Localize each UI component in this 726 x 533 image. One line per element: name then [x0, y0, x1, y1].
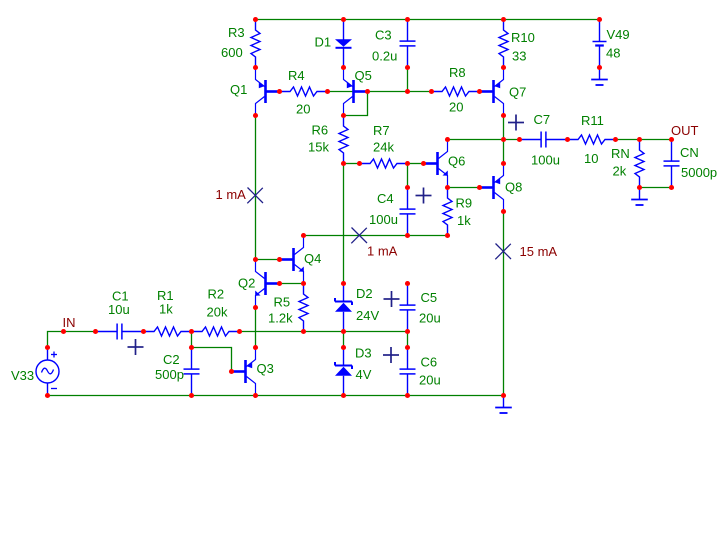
value 15k of R6 — [308, 139, 329, 154]
svg-text:15 mA: 15 mA — [520, 244, 558, 259]
capacitor C4 — [400, 188, 416, 236]
junction Q5 collector / R6 top — [341, 113, 346, 118]
label Q3 — [257, 361, 274, 376]
label Q2 — [238, 275, 255, 290]
svg-text:48: 48 — [606, 45, 620, 60]
svg-text:C5: C5 — [421, 290, 438, 305]
svg-text:Q3: Q3 — [257, 361, 274, 376]
transistor Q1 — [256, 68, 280, 116]
wire R5 bottom to D2 bottom — [304, 331, 344, 333]
junction D1 top — [341, 17, 346, 22]
capacitor C1 — [96, 324, 144, 340]
label V33 — [11, 368, 34, 383]
label R11 — [581, 113, 604, 128]
junction CN top / OUT — [669, 137, 674, 142]
plus mark of C7 — [508, 115, 524, 131]
wire Q1 collector column — [255, 116, 257, 260]
junction Q7 collector — [501, 113, 506, 118]
transistor Q7 — [480, 68, 504, 116]
svg-text:R7: R7 — [373, 123, 390, 138]
svg-text:100u: 100u — [369, 212, 398, 227]
junction V49 top — [597, 17, 602, 22]
diode D1 — [335, 20, 352, 68]
current probe X 1mA left — [247, 188, 263, 204]
svg-text:C3: C3 — [375, 27, 392, 42]
junction Q3 emitter — [253, 345, 258, 350]
wire R7 right to Q6 base — [408, 163, 424, 165]
svg-text:20: 20 — [296, 101, 310, 116]
resistor R9 — [443, 188, 452, 236]
value 24V of D2 — [356, 308, 379, 323]
junction R2 right — [237, 329, 242, 334]
label R1 — [157, 288, 174, 303]
svg-text:OUT: OUT — [671, 123, 699, 138]
junction R11 right — [613, 137, 618, 142]
junction R3 bottom / Q1 emitter — [253, 65, 258, 70]
junction RN bottom / ground — [637, 185, 642, 190]
junction R5 bottom — [301, 329, 306, 334]
value 0.2u of C3 — [372, 48, 397, 63]
plus mark of C4 — [416, 188, 432, 204]
svg-text:RN: RN — [611, 146, 630, 161]
junction C2 top — [189, 345, 194, 350]
value 20u of C5 — [419, 310, 441, 325]
svg-text:R3: R3 — [228, 25, 245, 40]
current label 1 mA middle — [367, 243, 398, 258]
svg-text:D3: D3 — [355, 345, 372, 360]
current probe X 1mA middle — [351, 228, 367, 244]
junction V33 plus — [45, 345, 50, 350]
resistor R7 — [360, 159, 408, 168]
resistor R1 — [144, 327, 192, 336]
label Q4 — [304, 251, 321, 266]
junction bottom rail / ground — [501, 393, 506, 398]
svg-text:10u: 10u — [108, 302, 130, 317]
value 20 of R8 — [449, 99, 463, 114]
label D3 — [355, 345, 372, 360]
svg-text:C6: C6 — [421, 354, 438, 369]
resistor RN — [635, 140, 644, 188]
value 100u of C7 — [531, 152, 560, 167]
junction V49 bottom / ground — [597, 65, 602, 70]
wire output node row — [448, 139, 520, 141]
label C1 — [112, 288, 129, 303]
label R5 — [274, 294, 291, 309]
wire C3 bottom to base row — [407, 68, 409, 92]
value 20u of C6 — [419, 372, 441, 387]
junction R8 left — [429, 89, 434, 94]
junction D3 top — [341, 345, 346, 350]
resistor R3 — [251, 20, 260, 68]
capacitor CN — [664, 140, 680, 188]
svg-text:100u: 100u — [531, 152, 560, 167]
wire D2 to D3 — [343, 332, 345, 348]
junction Q4 collector — [301, 233, 306, 238]
junction C3 top — [405, 17, 410, 22]
label V49 — [607, 27, 630, 42]
label R8 — [449, 65, 466, 80]
junction R9 bottom — [445, 233, 450, 238]
junction R7 right — [405, 161, 410, 166]
label Q1 — [230, 82, 247, 97]
svg-text:4V: 4V — [356, 367, 372, 382]
label Q7 — [509, 84, 526, 99]
resistor R6 — [339, 116, 348, 164]
capacitor C2 — [184, 348, 200, 396]
wire Q2 base to R5 top node — [280, 283, 304, 285]
svg-text:24V: 24V — [356, 308, 379, 323]
ground at V49 — [591, 68, 608, 86]
junction Q2 collector / Q4 base wire — [253, 257, 258, 262]
svg-text:C2: C2 — [163, 352, 180, 367]
zener diode D3 — [335, 348, 352, 396]
junction D2 top — [341, 281, 346, 286]
junction D1 bottom / Q5 emitter — [341, 65, 346, 70]
label D1 — [315, 34, 332, 49]
transistor Q6 — [424, 140, 448, 188]
svg-text:V33: V33 — [11, 368, 34, 383]
svg-text:C4: C4 — [377, 191, 394, 206]
resistor R4 — [280, 87, 328, 96]
wire R2 to R5 bottom — [240, 331, 304, 333]
value 1k of R1 — [159, 301, 173, 316]
junction R4 right — [325, 89, 330, 94]
junction R10 bottom / Q7 emitter — [501, 65, 506, 70]
junction D3 bottom — [341, 393, 346, 398]
label C3 — [375, 27, 392, 42]
junction Q4 base — [277, 257, 282, 262]
wire R6 bottom to R7 left — [344, 163, 360, 165]
value 24k of R7 — [373, 139, 394, 154]
junction C1 left — [93, 329, 98, 334]
label Q5 — [355, 68, 372, 83]
svg-text:1k: 1k — [159, 301, 173, 316]
junction C1 right / R1 left — [141, 329, 146, 334]
svg-text:Q6: Q6 — [448, 153, 465, 168]
junction C4 top — [405, 185, 410, 190]
svg-text:R9: R9 — [456, 195, 473, 210]
label C2 — [163, 352, 180, 367]
svg-text:Q4: Q4 — [304, 251, 321, 266]
junction Q1 base / R4 left — [277, 89, 282, 94]
capacitor C6 — [400, 348, 416, 396]
svg-text:20u: 20u — [419, 372, 441, 387]
node IN — [61, 329, 66, 334]
junction Q6 collector / output row — [445, 137, 450, 142]
value 20 of R4 — [296, 101, 310, 116]
junction Q8 base — [477, 185, 482, 190]
junction Q8 emitter — [501, 161, 506, 166]
junction Q2 emitter — [253, 305, 258, 310]
current label 1 mA left — [216, 187, 247, 202]
svg-text:R11: R11 — [581, 113, 604, 128]
svg-text:20: 20 — [449, 99, 463, 114]
value 10 of R11 — [584, 151, 598, 166]
svg-text:24k: 24k — [373, 139, 394, 154]
label D2 — [356, 286, 373, 301]
svg-text:IN: IN — [63, 315, 76, 330]
svg-text:Q7: Q7 — [509, 84, 526, 99]
plus mark of C6 — [383, 347, 399, 363]
svg-text:20u: 20u — [419, 310, 441, 325]
junction C7 left — [517, 137, 522, 142]
label R10 — [511, 30, 535, 45]
svg-text:D1: D1 — [315, 34, 332, 49]
svg-text:5000p: 5000p — [681, 165, 717, 180]
resistor R10 — [499, 20, 508, 68]
junction R3 top — [253, 17, 258, 22]
junction Q1 collector — [253, 113, 258, 118]
svg-text:0.2u: 0.2u — [372, 48, 397, 63]
current label 15 mA — [520, 244, 558, 259]
label C4 — [377, 191, 394, 206]
value 48 of V49 — [606, 45, 620, 60]
svg-text:1.2k: 1.2k — [268, 310, 293, 325]
svg-text:500p: 500p — [155, 367, 184, 382]
capacitor C3 — [400, 20, 416, 68]
value 10u of C1 — [108, 302, 130, 317]
transistor Q4 — [280, 236, 304, 284]
transistor Q3 — [232, 348, 256, 396]
junction V33 minus — [45, 393, 50, 398]
plus mark of C1 — [128, 339, 144, 355]
value 2k of RN — [613, 163, 627, 178]
wire D2 bottom to C5 bottom — [344, 331, 408, 333]
label RN — [611, 146, 630, 161]
svg-text:20k: 20k — [207, 304, 228, 319]
label R4 — [288, 68, 305, 83]
junction C7 right — [565, 137, 570, 142]
wire C2 top to Q3 base — [192, 348, 232, 372]
value 1k of R9 — [457, 213, 471, 228]
label R9 — [456, 195, 473, 210]
svg-text:CN: CN — [680, 145, 699, 160]
wire Q2 collector to Q4 base — [256, 259, 280, 261]
label R2 — [208, 286, 225, 301]
svg-text:33: 33 — [512, 48, 526, 63]
capacitor C5 — [400, 284, 416, 332]
junction CN bottom — [669, 185, 674, 190]
junction C6 top — [405, 345, 410, 350]
junction C3 bottom — [405, 65, 410, 70]
resistor R2 — [192, 327, 240, 336]
wire Q7 collector to output row — [503, 116, 505, 140]
label CN — [680, 145, 699, 160]
label Q8 — [505, 179, 522, 194]
svg-text:C7: C7 — [534, 112, 551, 127]
resistor R5 — [299, 284, 308, 332]
svg-text:1 mA: 1 mA — [367, 243, 398, 258]
svg-text:V49: V49 — [607, 27, 630, 42]
value 5000p of CN — [681, 165, 717, 180]
transistor Q5 — [344, 68, 368, 116]
capacitor C7 — [520, 132, 568, 148]
junction R6 bottom — [341, 161, 346, 166]
label C6 — [421, 354, 438, 369]
junction RN top — [637, 137, 642, 142]
wire top supply rail — [256, 19, 600, 21]
junction R1-R2 / C2 branch — [189, 329, 194, 334]
value 500p of C2 — [155, 367, 184, 382]
svg-text:R5: R5 — [274, 294, 291, 309]
value 20k of R2 — [207, 304, 228, 319]
junction D2 bottom — [341, 329, 346, 334]
wire R1-R2 junction down to C2 — [191, 332, 193, 348]
svg-text:2k: 2k — [613, 163, 627, 178]
transistor Q8 — [480, 164, 504, 212]
wire C5 to C6 — [407, 332, 409, 348]
svg-text:Q8: Q8 — [505, 179, 522, 194]
wire R6 column down to D2 — [343, 164, 345, 284]
ground at RN — [631, 188, 648, 206]
battery V49 — [593, 20, 607, 68]
resistor R8 — [432, 87, 480, 96]
svg-text:Q1: Q1 — [230, 82, 247, 97]
junction Q3 base — [229, 369, 234, 374]
junction C6 bottom — [405, 393, 410, 398]
wire node row Q4 collector to R9 bottom — [304, 235, 448, 237]
label R7 — [373, 123, 390, 138]
junction Q6 emitter / R9 top — [445, 185, 450, 190]
junction R8 right / Q7 base — [477, 89, 482, 94]
label Q6 — [448, 153, 465, 168]
svg-text:1k: 1k — [457, 213, 471, 228]
svg-text:Q5: Q5 — [355, 68, 372, 83]
transistor Q2 — [255, 260, 279, 308]
svg-text:Q2: Q2 — [238, 275, 255, 290]
label C7 — [534, 112, 551, 127]
svg-text:R6: R6 — [312, 122, 329, 137]
svg-text:R8: R8 — [449, 65, 466, 80]
net label OUT — [671, 123, 699, 138]
value 4V of D3 — [356, 367, 372, 382]
wire RN bottom to CN bottom — [640, 187, 672, 189]
svg-text:1 mA: 1 mA — [216, 187, 247, 202]
wire R7 down to C4 top — [407, 164, 409, 188]
junction C5 bottom — [405, 329, 410, 334]
wire Q8 collector to bottom rail — [503, 212, 505, 396]
svg-text:R10: R10 — [511, 30, 535, 45]
value 1.2k of R5 — [268, 310, 293, 325]
junction Q2 base — [277, 281, 282, 286]
junction Q3 collector — [253, 393, 258, 398]
svg-text:15k: 15k — [308, 139, 329, 154]
wire Q2 emitter to Q3 emitter column — [255, 308, 257, 348]
junction Q5 base — [365, 89, 370, 94]
value 33 of R10 — [512, 48, 526, 63]
junction Q6 base — [421, 161, 426, 166]
junction C4 bottom — [405, 233, 410, 238]
ground at bottom rail — [495, 396, 512, 414]
value 100u of C4 — [369, 212, 398, 227]
svg-text:10: 10 — [584, 151, 598, 166]
label C5 — [421, 290, 438, 305]
wire R11 to OUT node — [616, 139, 672, 141]
junction C5 top — [405, 281, 410, 286]
zener diode D2 — [335, 284, 352, 332]
junction C2 bottom — [189, 393, 194, 398]
svg-text:R4: R4 — [288, 68, 305, 83]
wire bottom ground rail — [48, 395, 504, 397]
junction R10 top — [501, 17, 506, 22]
junction C3-base row — [405, 89, 410, 94]
svg-text:600: 600 — [221, 45, 243, 60]
source V33 — [36, 348, 59, 396]
junction Q8 collector — [501, 209, 506, 214]
wire Q6 emitter to Q8 base — [448, 187, 480, 189]
junction Q4 emitter / R5 top — [301, 281, 306, 286]
plus mark of C5 — [384, 291, 400, 307]
resistor R11 — [568, 135, 616, 144]
current probe X 15mA — [495, 244, 511, 260]
label R6 — [312, 122, 329, 137]
value 600 of R3 — [221, 45, 243, 60]
wire Q5 base loop — [344, 92, 368, 116]
wire output row to Q8 emitter — [503, 140, 505, 164]
svg-text:D2: D2 — [356, 286, 373, 301]
wire base row Q5 to R8 — [328, 91, 432, 93]
svg-text:R2: R2 — [208, 286, 225, 301]
label R3 — [228, 25, 245, 40]
wire input corner from V33 to C1 — [48, 332, 96, 348]
junction output row at Q7 — [501, 137, 506, 142]
net label IN — [63, 315, 76, 330]
junction R7 left — [357, 161, 362, 166]
